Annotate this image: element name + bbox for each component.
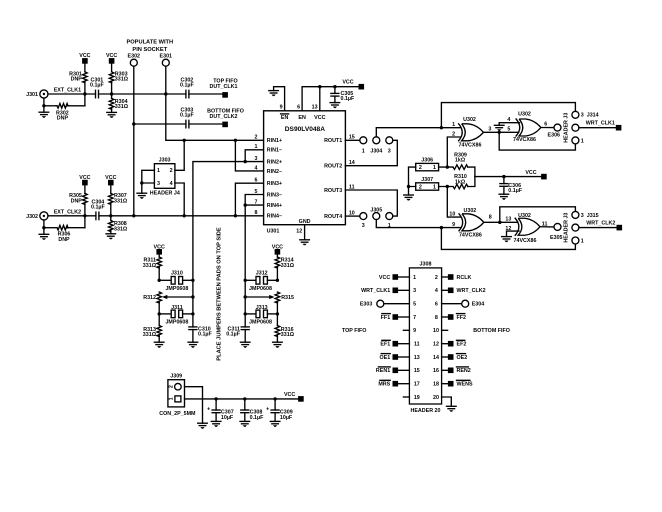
wire GND pin 12 stub — [304, 225, 306, 240]
node junction J303 pin4 — [183, 214, 186, 217]
svg-text:POPULATE WITH: POPULATE WITH — [126, 39, 173, 45]
terminal REN2 (J308 pin16) — [448, 367, 471, 374]
svg-text:74VCX86: 74VCX86 — [513, 137, 536, 143]
svg-text:DNP: DNP — [58, 237, 70, 243]
wire bottom rail to header J3 pin1 (J315) — [441, 228, 575, 250]
wire RIN3- crossover — [245, 195, 263, 206]
svg-text:0.1µF: 0.1µF — [508, 188, 523, 194]
resistor R314 331ohm — [275, 255, 295, 281]
svg-text:FF2: FF2 — [457, 315, 467, 321]
ground below J308 pin20 — [447, 406, 457, 412]
node junction J311 right — [191, 312, 194, 315]
svg-text:0.1µF: 0.1µF — [226, 332, 241, 338]
svg-text:BOTTOM FIFO: BOTTOM FIFO — [473, 328, 510, 334]
resistor R307 331ohm — [109, 185, 128, 215]
wire J306/J307 left common — [409, 167, 416, 186]
svg-text:RCLK: RCLK — [457, 275, 472, 281]
node junction C306 — [502, 175, 505, 178]
svg-text:EF2: EF2 — [457, 342, 467, 348]
resistor R309 1k — [439, 152, 475, 176]
svg-text:J308: J308 — [420, 261, 432, 267]
svg-text:EF1: EF1 — [380, 342, 390, 348]
ground on U302d pin12 — [502, 237, 512, 243]
pin socket E304 — [462, 300, 485, 307]
svg-text:4: 4 — [255, 165, 258, 171]
node junction R314/R315 — [276, 279, 279, 282]
ground below J301 — [39, 106, 49, 118]
terminal WRT_CLK2 — [586, 221, 622, 231]
node junction E302/EXT_CLK2 — [132, 214, 135, 217]
ground below C309 — [270, 421, 280, 427]
svg-text:8: 8 — [435, 315, 438, 321]
svg-text:331Ω: 331Ω — [115, 104, 129, 110]
svg-text:10µF: 10µF — [221, 415, 234, 421]
svg-text:DNP: DNP — [57, 116, 69, 122]
svg-text:RIN1–: RIN1– — [267, 148, 282, 154]
node junction R301 on line1 — [83, 92, 86, 95]
svg-text:6: 6 — [255, 178, 258, 184]
wire RIN2+ to jumper network 1 — [193, 162, 264, 327]
svg-text:331Ω: 331Ω — [114, 198, 128, 204]
svg-text:8: 8 — [489, 215, 492, 221]
wire RIN4+ to jumper network 2 — [245, 205, 263, 327]
svg-text:17: 17 — [414, 382, 420, 388]
resistor R302 DNP — [44, 94, 85, 122]
resistor R312 trimmer — [143, 292, 193, 314]
wire EXT_CLK2 line from C304 to RIN4- — [99, 215, 264, 217]
ground below J309 pin2 — [198, 423, 208, 429]
terminal WENS (J308 pin18) — [448, 380, 473, 387]
wire J301 stub to ground node — [43, 98, 45, 106]
svg-text:+: + — [266, 406, 269, 412]
svg-text:4: 4 — [170, 181, 173, 187]
wire J308 pin6 stub — [442, 303, 462, 305]
wire J305 pin3 to ROUT3 — [345, 190, 397, 216]
wire J308 pin5 stub — [384, 303, 410, 305]
wire J308 pin13 stub — [398, 356, 409, 358]
power VCC (R309/R310) — [525, 170, 546, 180]
node junction C309 — [273, 397, 276, 400]
wire J303 pin1/pin3 to ground — [142, 170, 155, 183]
resistor R313 331ohm — [143, 314, 162, 342]
svg-text:J302: J302 — [26, 214, 38, 220]
svg-text:ROUT3: ROUT3 — [324, 188, 342, 194]
node junction E302/line2 — [132, 122, 135, 125]
svg-text:1: 1 — [581, 238, 584, 244]
svg-text:1: 1 — [362, 149, 365, 155]
wire line2 from E302 to C303 — [134, 123, 186, 125]
svg-text:EXT_CLK2: EXT_CLK2 — [54, 210, 81, 216]
svg-text:VCC: VCC — [525, 170, 536, 176]
resistor R305 DNP — [69, 185, 87, 215]
svg-text:FF1: FF1 — [381, 315, 391, 321]
pin socket E301 — [160, 54, 173, 66]
svg-text:331Ω: 331Ω — [143, 263, 157, 269]
note POPULATE WITH PIN SOCKET — [126, 39, 173, 52]
node junction U302a output — [498, 131, 501, 134]
wire EXT_CLK1 line from C301 to C302 — [99, 93, 186, 95]
ground below C306 — [499, 194, 509, 200]
wire EN(pin6)/VCC(pin13) rail to VCC — [302, 87, 358, 111]
node junction R310 wire — [446, 185, 449, 188]
terminal WRT_CLK1 — [586, 121, 622, 131]
wire J308 pin2 stub — [442, 276, 448, 278]
wire J308 pin16 stub — [442, 369, 448, 371]
svg-text:4: 4 — [435, 288, 438, 294]
svg-text:7: 7 — [255, 200, 258, 206]
node junction RIN1+/RIN2- — [234, 139, 237, 142]
svg-text:MRS: MRS — [378, 382, 390, 388]
terminal TOP FIFO DUT_CLK1 — [210, 79, 238, 98]
svg-text:U302: U302 — [463, 117, 476, 123]
svg-text:JMP0608: JMP0608 — [165, 320, 188, 326]
wire U302d output to E305 — [540, 226, 554, 228]
power VCC (J309) — [284, 392, 304, 402]
svg-text:13: 13 — [414, 355, 420, 361]
svg-text:2: 2 — [168, 385, 174, 388]
svg-text:J309: J309 — [170, 373, 182, 379]
svg-text:0.1µF: 0.1µF — [250, 415, 265, 421]
header J3 bottom (J315) — [564, 211, 579, 244]
ground on U302b pin4 — [494, 125, 504, 131]
svg-text:2: 2 — [435, 275, 438, 281]
wire ROUT4 to J305 — [345, 215, 359, 217]
svg-text:1: 1 — [433, 165, 436, 171]
svg-text:14: 14 — [433, 355, 439, 361]
power VCC (R303) — [106, 53, 117, 64]
svg-text:WENS: WENS — [457, 382, 473, 388]
svg-text:U301: U301 — [267, 229, 280, 235]
wire J308 pin11 stub — [398, 343, 409, 345]
svg-text:18: 18 — [433, 382, 439, 388]
svg-text:REN2: REN2 — [457, 368, 471, 374]
svg-text:19: 19 — [414, 395, 420, 401]
svg-text:OE1: OE1 — [379, 355, 390, 361]
resistor R310 1k — [439, 174, 475, 189]
node junction J312 left — [244, 279, 247, 282]
op-amp U302 XOR gate D — [514, 213, 540, 244]
jumper J312 JMP0608 — [245, 271, 277, 292]
jumper J310 JMP0608 — [159, 271, 193, 292]
wire U302a output to U302b pin5 — [483, 131, 518, 133]
node junction U302a pin1 — [440, 126, 443, 129]
node junction J313 left — [244, 312, 247, 315]
capacitor C301 — [90, 78, 105, 98]
svg-text:1: 1 — [452, 122, 455, 128]
ground below C307 — [211, 421, 221, 427]
wire J308 pin4 stub — [442, 289, 448, 291]
svg-text:0.1µF: 0.1µF — [198, 332, 213, 338]
svg-text:PLACE JUMPERS BETWEEN PADS ON: PLACE JUMPERS BETWEEN PADS ON TOP SIDE — [217, 227, 223, 361]
header J307 — [416, 177, 439, 191]
node junction C307 — [214, 397, 217, 400]
svg-text:HEADER J3: HEADER J3 — [564, 113, 570, 143]
svg-text:EXT_CLK1: EXT_CLK1 — [54, 88, 81, 94]
svg-text:3: 3 — [255, 156, 258, 162]
svg-text:VCC: VCC — [314, 115, 325, 121]
pin socket E303 — [360, 300, 384, 307]
wire R309 node up to U302a pin2 — [447, 137, 460, 167]
svg-text:15: 15 — [414, 368, 420, 374]
node junction under J302 — [42, 226, 45, 229]
svg-text:331Ω: 331Ω — [115, 77, 129, 83]
svg-text:J312: J312 — [256, 271, 268, 277]
svg-text:DUT_CLK2: DUT_CLK2 — [210, 114, 238, 120]
ground below R308 — [106, 234, 116, 240]
svg-text:JMP0608: JMP0608 — [249, 320, 272, 326]
svg-text:2: 2 — [255, 135, 258, 141]
node junction R303 on line1 — [110, 92, 113, 95]
connector J302 (BNC) — [26, 212, 48, 220]
wire U302b pin4 with ground — [499, 123, 519, 126]
resistor R315 trimmer — [245, 292, 294, 314]
pin socket E306 — [548, 124, 561, 138]
node junction J303 pin2 — [183, 139, 186, 142]
svg-text:OE2: OE2 — [457, 355, 468, 361]
capacitor C310 — [189, 326, 213, 342]
ground below R316 — [273, 342, 283, 348]
power VCC (R305) — [79, 175, 90, 186]
wire J308 pin19 stub — [403, 396, 409, 398]
svg-text:DNP: DNP — [71, 198, 83, 204]
node junction R309 wire — [446, 165, 449, 168]
wire J308 pin18 stub — [442, 383, 448, 385]
wire J302 stub to ground node — [43, 220, 45, 228]
svg-text:VCC: VCC — [379, 275, 390, 281]
capacitor C306 — [500, 177, 523, 195]
resistor R304 331ohm — [109, 94, 128, 112]
wire J308 pin12 stub — [442, 343, 448, 345]
terminal REN1 (J308 pin15) — [376, 367, 398, 374]
svg-text:WRT_CLK2: WRT_CLK2 — [586, 221, 615, 227]
svg-text:J303: J303 — [159, 158, 171, 164]
pin socket E302 — [128, 54, 141, 66]
svg-text:20: 20 — [433, 395, 439, 401]
wire J303 pin4 down to EXT_CLK2 line — [175, 183, 184, 216]
svg-text:1: 1 — [581, 138, 584, 144]
op-amp U302 XOR gate C — [459, 208, 484, 239]
wire U302d pin12 with ground — [507, 231, 520, 237]
wire C303 to DUT_CLK2 terminal — [189, 123, 222, 125]
svg-text:6: 6 — [297, 105, 300, 111]
power VCC (U301 rail) — [342, 80, 364, 90]
svg-text:HEADER 20: HEADER 20 — [411, 408, 441, 414]
svg-text:U302: U302 — [518, 112, 531, 118]
wire RIN1- crossover — [245, 150, 263, 162]
node junction R307 on line — [109, 214, 112, 217]
capacitor C307 10uF polarized — [207, 399, 234, 422]
svg-text:E305: E305 — [550, 235, 563, 241]
wire J309 pin1 to VCC — [185, 398, 299, 400]
svg-text:3: 3 — [413, 288, 416, 294]
ground for EN pin9 — [269, 91, 279, 97]
wire J304 pin2 to XOR U302a input1 — [376, 128, 460, 137]
svg-text:1: 1 — [255, 144, 258, 150]
svg-text:JMP0608: JMP0608 — [249, 286, 272, 292]
wire U302b output to E306 — [541, 127, 554, 129]
node junction under J301 — [42, 104, 45, 107]
svg-text:13: 13 — [505, 217, 511, 223]
wire J308 pin14 stub — [442, 356, 448, 358]
wire J303 pin2 up to RIN1+ line — [175, 140, 184, 170]
svg-text:EN: EN — [298, 115, 306, 121]
power VCC (R307) — [105, 175, 116, 186]
svg-text:6: 6 — [435, 302, 438, 308]
resistor R311 331ohm — [143, 255, 162, 281]
terminal EF2 (J308 pin12) — [448, 340, 466, 347]
wire inner rail U302a out to header J3 pin1 — [499, 132, 575, 150]
ground below R313 — [154, 342, 164, 348]
header J303 — [150, 158, 180, 197]
ground below J306/J307 — [404, 187, 414, 201]
wire RIN2- crossover — [235, 140, 263, 171]
node junction U302c pin9 — [440, 226, 443, 229]
svg-text:J304: J304 — [370, 149, 382, 155]
connector J301 (BNC) — [26, 90, 48, 98]
node junction RIN1-/RIN2+ — [244, 160, 247, 163]
capacitor C303 — [180, 108, 195, 128]
node junction R315 wiper — [244, 295, 247, 298]
svg-text:RIN3–: RIN3– — [267, 192, 282, 198]
wire inner rail U302c out to header J3 pin3 — [500, 207, 576, 223]
svg-text:5: 5 — [507, 127, 510, 133]
svg-text:TOP FIFO: TOP FIFO — [342, 328, 366, 334]
wire E301 vertical down to RIN1+ line — [166, 66, 264, 140]
svg-text:9: 9 — [413, 328, 416, 334]
svg-text:ROUT1: ROUT1 — [324, 138, 342, 144]
terminal VCC (J308 pin1) — [379, 274, 398, 281]
svg-text:16: 16 — [433, 368, 439, 374]
terminal BOTTOM FIFO DUT_CLK2 — [207, 109, 244, 128]
wire J308 pin20 to ground — [442, 397, 452, 406]
svg-text:ROUT2: ROUT2 — [324, 164, 342, 170]
ground below C310 — [188, 342, 198, 348]
wire J308 pin3 stub — [398, 289, 409, 291]
node junction RIN3+ vertical — [234, 214, 237, 217]
power VCC (R311) — [154, 244, 165, 254]
node junction R315/R316 — [276, 312, 279, 315]
svg-text:2: 2 — [419, 165, 422, 171]
svg-text:331Ω: 331Ω — [114, 226, 128, 232]
svg-text:0.1µF: 0.1µF — [90, 83, 105, 89]
resistor R308 331ohm — [109, 216, 128, 234]
svg-text:2: 2 — [419, 185, 422, 191]
svg-text:74VCX86: 74VCX86 — [514, 238, 537, 244]
wire E302 vertical to line2 and EXT_CLK2 line — [133, 66, 135, 216]
svg-text:E304: E304 — [472, 302, 485, 308]
terminal OE2 (J308 pin14) — [448, 354, 467, 361]
node junction E301 on line1 — [164, 92, 167, 95]
wire ROUT1 to J304 — [345, 139, 359, 141]
svg-text:0.1µF: 0.1µF — [180, 113, 195, 119]
svg-text:3: 3 — [388, 149, 391, 155]
svg-text:RIN4+: RIN4+ — [267, 203, 282, 209]
svg-text:1: 1 — [413, 275, 416, 281]
svg-text:12: 12 — [433, 342, 439, 348]
wire J308 pin10 stub — [442, 329, 448, 331]
node junction VCC pin13 — [318, 85, 321, 88]
svg-text:WRT_CLK1: WRT_CLK1 — [586, 121, 615, 127]
svg-text:1: 1 — [433, 185, 436, 191]
ground below U301 — [300, 240, 310, 246]
ground below C305 — [330, 103, 340, 109]
terminal OE1 (J308 pin13) — [379, 354, 398, 361]
terminal WRT_CLK2 (J308 pin4) — [448, 288, 486, 295]
svg-text:VCC: VCC — [342, 80, 353, 86]
svg-text:7: 7 — [413, 315, 416, 321]
svg-text:HEADER J4: HEADER J4 — [150, 191, 180, 197]
wire R310 node down to U302c pin10 — [447, 187, 460, 218]
svg-text:8: 8 — [255, 210, 258, 216]
wire J308 pin7 stub — [398, 316, 409, 318]
svg-text:74VCX86: 74VCX86 — [459, 233, 482, 239]
svg-text:11: 11 — [542, 221, 548, 227]
op-amp U302 XOR gate A — [459, 117, 484, 149]
svg-text:EN: EN — [281, 115, 289, 121]
capacitor C308 0.1uF — [241, 399, 264, 422]
svg-text:RIN2+: RIN2+ — [267, 160, 282, 166]
node junction C308 — [243, 397, 246, 400]
svg-text:5: 5 — [255, 189, 258, 195]
wire C302 to DUT_CLK1 terminal — [189, 93, 222, 95]
wire RIN3+ crossover — [235, 183, 263, 216]
node junction J303 ground — [140, 181, 143, 184]
terminal WRT_CLK1 (J308 pin3) — [361, 288, 398, 295]
node junction R312 wiper — [191, 295, 194, 298]
wire J308 pin17 stub — [398, 383, 409, 385]
svg-text:DUT_CLK1: DUT_CLK1 — [210, 84, 238, 90]
resistor R303 331ohm — [109, 64, 128, 94]
capacitor C302 — [180, 78, 195, 98]
wire top rail to header J3 pin3 (J314) — [441, 103, 575, 128]
svg-text:RIN3+: RIN3+ — [267, 181, 282, 187]
ground below C308 — [240, 421, 250, 427]
wire R309/R310 common to VCC — [475, 176, 541, 178]
svg-text:1: 1 — [157, 168, 160, 174]
svg-text:WRT_CLK1: WRT_CLK1 — [361, 288, 390, 294]
header J308 (HEADER 20) — [409, 261, 441, 413]
svg-text:JMP0608: JMP0608 — [165, 286, 188, 292]
svg-text:5: 5 — [413, 302, 416, 308]
svg-text:ROUT4: ROUT4 — [324, 214, 342, 220]
power VCC (R314) — [272, 244, 283, 254]
svg-text:11: 11 — [414, 342, 420, 348]
svg-text:3: 3 — [157, 181, 160, 187]
wire J308 pin1 stub — [398, 276, 409, 278]
node junction R312/R313 — [158, 312, 161, 315]
terminal FF1 (J308 pin7) — [381, 314, 398, 321]
svg-text:HEADER J3: HEADER J3 — [564, 213, 570, 243]
svg-text:0.1µF: 0.1µF — [341, 96, 356, 102]
wire J308 pin15 stub — [398, 369, 409, 371]
wire J304 pin3 to ROUT2 — [345, 140, 397, 165]
svg-text:4: 4 — [507, 117, 510, 123]
wire header J3 pin2 to WRT_CLK1 — [579, 127, 616, 129]
svg-text:PIN SOCKET: PIN SOCKET — [132, 47, 167, 53]
connector J309 CON_2P_5MM — [159, 373, 196, 417]
svg-text:R315: R315 — [281, 295, 294, 301]
svg-text:74VCX86: 74VCX86 — [459, 143, 482, 149]
svg-text:3: 3 — [488, 127, 491, 133]
pin socket E305 — [550, 223, 563, 240]
ground below J302 — [39, 228, 49, 240]
svg-text:331Ω: 331Ω — [281, 332, 295, 338]
wire J308 pin9 stub — [403, 329, 409, 331]
svg-text:1: 1 — [168, 397, 174, 400]
svg-text:E306: E306 — [548, 132, 561, 138]
svg-text:RIN2–: RIN2– — [267, 169, 282, 175]
node junction R311/R312 — [158, 279, 161, 282]
